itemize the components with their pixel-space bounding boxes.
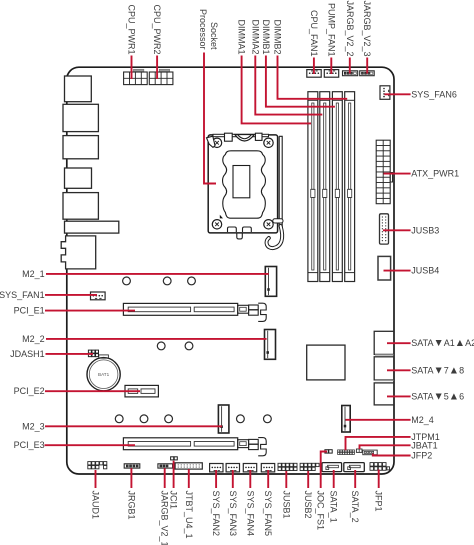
leader M2_2 [46, 338, 267, 340]
svg-text:CPU_PWR2: CPU_PWR2 [152, 4, 162, 54]
PCIe slot PCI_E3 [123, 438, 237, 450]
leader SYS_FAN3 [232, 470, 234, 488]
leader CPU_PWR2 [156, 56, 158, 80]
leader PCI_E2 [45, 390, 140, 392]
svg-text:JUSB1: JUSB1 [281, 491, 291, 519]
M.2 slot M2_1 [265, 267, 276, 297]
connector CPU_FAN1 [307, 70, 321, 78]
leader CPU_FAN1 [313, 58, 315, 75]
connector SYS_FAN1 [91, 292, 106, 300]
DIMM slot DIMMA2 [320, 92, 330, 282]
svg-text:SYS_FAN3: SYS_FAN3 [228, 491, 238, 537]
svg-text:JFP2: JFP2 [411, 451, 432, 461]
M.2 standoffs row 2 [157, 342, 165, 350]
svg-text:CPU_FAN1: CPU_FAN1 [309, 10, 319, 57]
M.2 standoffs row 1 [123, 277, 131, 285]
connector JUSB4 [378, 256, 391, 280]
svg-text:DIMMB2: DIMMB2 [273, 19, 283, 54]
motherboard outline [67, 67, 394, 474]
svg-text:JAUD1: JAUD1 [91, 491, 101, 520]
leader SATA A1 A2 [387, 342, 411, 344]
PCIe slot PCI_E2 [125, 385, 158, 397]
connector JARGB_V2_2 [343, 71, 358, 76]
svg-text:BAT1: BAT1 [98, 372, 110, 377]
leader SYS_FAN1 [45, 294, 97, 296]
svg-text:JTBT_U4_1: JTBT_U4_1 [184, 491, 194, 539]
connector JUSB2 [300, 463, 303, 466]
connector PUMP_FAN1 [324, 70, 338, 78]
svg-text:ATX_PWR1: ATX_PWR1 [411, 169, 459, 179]
rear IO block 5 [63, 193, 98, 220]
connector SATA_1 [322, 463, 342, 472]
svg-text:SATA_2: SATA_2 [350, 491, 360, 523]
leader JFP2 [373, 454, 411, 456]
leader SYS_FAN5 [267, 470, 269, 488]
leader JAUD1 [95, 470, 97, 488]
svg-text:PCI_E2: PCI_E2 [14, 386, 45, 396]
leader PUMP_FAN1 [330, 58, 332, 75]
connector SYS_FAN3 [226, 464, 239, 472]
chipset [307, 345, 345, 380]
svg-text:CPU_PWR1: CPU_PWR1 [127, 4, 137, 54]
leader SATA 7 8 [387, 369, 411, 371]
svg-text:SYS_FAN2: SYS_FAN2 [211, 491, 221, 537]
leader PCI_E1 [45, 310, 135, 312]
svg-text:SATA▼A1▲A2: SATA▼A1▲A2 [411, 338, 474, 349]
svg-text:DIMMB1: DIMMB1 [261, 19, 271, 54]
connector SYS_FAN2 [210, 464, 223, 472]
svg-text:SATA_1: SATA_1 [329, 491, 339, 523]
rear IO block 6 [65, 221, 119, 233]
leader DIMMA1 [242, 56, 311, 124]
rear IO block 4 [65, 168, 92, 188]
rear IO audio block [61, 236, 96, 269]
leader M2_4 [346, 419, 411, 421]
svg-text:JCI1: JCI1 [169, 491, 179, 510]
leader JCI1 [173, 461, 175, 488]
svg-text:PCI_E3: PCI_E3 [14, 440, 45, 450]
svg-text:JARGB_V2_3: JARGB_V2_3 [362, 0, 372, 56]
leader JARGB_V2_1 [164, 468, 166, 488]
svg-text:Socket: Socket [209, 22, 219, 50]
SATA port block A1 A2 [374, 331, 394, 354]
connector JAUD1 [88, 462, 91, 465]
leader SATA_1 [333, 470, 335, 488]
leader JUSB2 [307, 471, 309, 488]
connector JARGB_V2_3 [360, 71, 375, 76]
connector CPU_PWR1 [134, 69, 144, 72]
svg-text:JFP1: JFP1 [374, 491, 384, 512]
connector SATA_2 [344, 463, 365, 472]
leader SATA 5 6 [387, 395, 411, 397]
leader SYS_FAN2 [215, 470, 217, 488]
connector SYS_FAN6 [380, 86, 390, 100]
svg-text:JARGB_V2_1: JARGB_V2_1 [160, 491, 170, 545]
M.2 standoffs row 3 [115, 415, 123, 423]
svg-text:SATA▼7▲8: SATA▼7▲8 [411, 365, 464, 376]
connector JTBT_U4_1 [175, 463, 202, 469]
leader ATX_PWR1 [384, 173, 411, 175]
connector JUSB3 [380, 214, 389, 244]
svg-text:JBAT1: JBAT1 [411, 440, 437, 450]
connector CPU_PWR2 [159, 69, 169, 72]
SATA port block 5 6 [374, 383, 394, 405]
connector JBAT1 [356, 449, 362, 452]
svg-text:DIMMA2: DIMMA2 [250, 19, 260, 54]
DIMM slot DIMMB2 [345, 92, 355, 282]
svg-text:JARGB_V2_2: JARGB_V2_2 [345, 0, 355, 56]
svg-text:JUSB2: JUSB2 [303, 491, 313, 519]
rear IO block 3 [63, 136, 98, 159]
DIMM slot DIMMA1 [308, 92, 318, 282]
leader JTBT_U4_1 [188, 469, 190, 488]
connector JFP2 [363, 450, 377, 455]
leader M2_3 [45, 425, 222, 427]
leader DIMMB2 [278, 56, 348, 99]
connector JUSB1 [278, 463, 281, 466]
connector JDASH1 [88, 350, 91, 353]
leader M2_1 [46, 273, 269, 275]
leader SYS_FAN4 [249, 470, 251, 488]
leader JDASH1 [46, 353, 94, 355]
svg-text:SYS_FAN4: SYS_FAN4 [245, 491, 255, 537]
leader JUSB3 [383, 229, 411, 231]
PCIe slot PCI_E1 [123, 303, 237, 315]
svg-text:M2_1: M2_1 [22, 269, 45, 279]
connector SYS_FAN5 [261, 464, 274, 472]
connector JOC_FS1 [325, 450, 328, 453]
leader DIMMA2 [255, 56, 322, 115]
svg-text:M2_4: M2_4 [411, 415, 434, 425]
leader JFP1 [378, 470, 380, 489]
svg-text:Processor: Processor [198, 9, 208, 50]
leader CPU_PWR1 [131, 56, 133, 80]
svg-text:PUMP_FAN1: PUMP_FAN1 [326, 3, 336, 57]
svg-text:JUSB4: JUSB4 [411, 266, 439, 276]
leader JARGB_V2_2 [349, 58, 351, 74]
M.2 slot M2_2 [265, 330, 276, 360]
connector SYS_FAN4 [243, 464, 256, 472]
leader JTPM1 [346, 437, 411, 450]
leader JUSB1 [285, 471, 287, 488]
leader JARGB_V2_3 [366, 58, 368, 74]
svg-text:SATA▼5▲6: SATA▼5▲6 [411, 391, 464, 402]
svg-text:JRGB1: JRGB1 [126, 491, 136, 520]
svg-text:JDASH1: JDASH1 [10, 349, 45, 359]
connector JFP1 [370, 463, 374, 467]
svg-text:DIMMA1: DIMMA1 [237, 19, 247, 54]
connector ATX_PWR1 [376, 140, 390, 204]
leader JOC_FS1 [321, 452, 327, 489]
DIMM slot DIMMB1 [332, 92, 342, 282]
svg-text:M2_2: M2_2 [22, 334, 45, 344]
svg-text:SYS_FAN6: SYS_FAN6 [411, 89, 457, 99]
leader JRGB1 [130, 468, 132, 488]
svg-text:JUSB3: JUSB3 [411, 225, 439, 235]
connector JRGB1 [124, 464, 140, 468]
rear IO block 1 [65, 76, 92, 102]
SATA port block 7 8 [374, 357, 394, 380]
leader SYS_FAN6 [385, 93, 411, 95]
CPU socket U1 [208, 135, 277, 233]
svg-text:SYS_FAN5: SYS_FAN5 [263, 491, 273, 537]
connector JTPM1 [338, 450, 340, 452]
svg-text:PCI_E1: PCI_E1 [14, 306, 45, 316]
leader SATA_2 [354, 470, 356, 488]
M.2 slot M2_3 [218, 405, 229, 433]
svg-text:JOC_FS1: JOC_FS1 [316, 491, 326, 531]
leader PCI_E3 [45, 444, 136, 446]
connector JCI1 [171, 457, 174, 460]
leader JUSB4 [384, 270, 411, 272]
battery BAT1 [87, 358, 120, 391]
connector JARGB_V2_1 [158, 464, 173, 468]
rear IO block 2 [63, 104, 98, 131]
M.2 slot M2_4 [342, 406, 350, 433]
leader JBAT1 [360, 445, 411, 449]
leader DIMMB1 [266, 56, 335, 107]
svg-text:SYS_FAN1: SYS_FAN1 [0, 290, 45, 300]
leader Processor Socket [204, 53, 216, 184]
svg-text:M2_3: M2_3 [22, 421, 45, 431]
